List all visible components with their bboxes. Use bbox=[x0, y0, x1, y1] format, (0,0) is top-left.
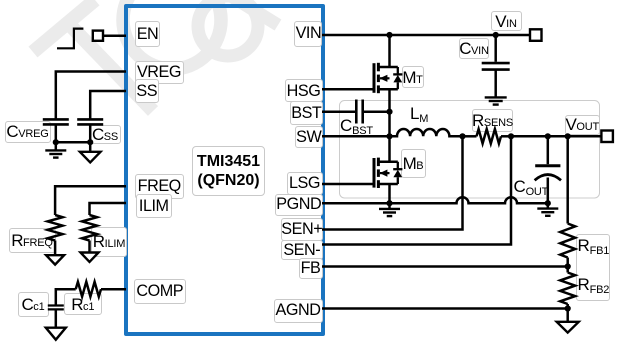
node C_OUT bottom / power ground bbox=[545, 200, 551, 206]
wire FB to feedback divider bbox=[322, 265, 568, 268]
resistor R_SENS bbox=[477, 129, 502, 143]
capacitor C_SS bbox=[77, 119, 103, 124]
wire R_FREQ to ground bbox=[54, 241, 57, 256]
pin label ILIM bbox=[136, 194, 172, 218]
wire VIN pin to V_IN terminal bbox=[322, 34, 530, 37]
pin label VREG bbox=[135, 61, 184, 84]
label C_OUT bbox=[514, 178, 549, 195]
resistor R_FB2 bbox=[566, 267, 569, 273]
op-amp / IC U1 TMI3451 outline bbox=[124, 4, 325, 336]
ground (earth) under C_VIN bbox=[485, 97, 507, 104]
capacitor C_VREG bbox=[43, 119, 69, 124]
ground (triangle) under C_c1 bbox=[46, 328, 66, 340]
resistor R_FREQ bbox=[48, 215, 63, 241]
wire R_SENS node to V_OUT bbox=[511, 135, 601, 138]
label C_BST bbox=[340, 117, 373, 134]
V_IN terminal bbox=[530, 29, 542, 41]
label R_FB2 bbox=[578, 276, 610, 293]
wire FREQ pin to R_FREQ bbox=[55, 186, 126, 215]
V_OUT terminal bbox=[601, 131, 613, 143]
pin label LSG bbox=[287, 172, 323, 196]
pin label SW bbox=[295, 126, 323, 149]
pin label VIN bbox=[294, 21, 322, 47]
wire M_B source to ground bbox=[388, 184, 391, 203]
wire SS pin to C_SS bbox=[90, 91, 126, 119]
resistor R_FB1 bbox=[566, 136, 569, 223]
wire SEN+ to left of R_SENS bbox=[322, 136, 463, 229]
EN input terminal bbox=[93, 31, 103, 41]
transistor M_B bbox=[374, 158, 402, 188]
ground (triangle) under R_FB2 bbox=[566, 309, 569, 322]
node L_M / SEN+ tap bbox=[459, 133, 465, 139]
wire R_ILIM to ground bbox=[88, 241, 91, 253]
label R_FREQ bbox=[9, 228, 56, 254]
node R_SENS / SEN- tap bbox=[508, 133, 514, 139]
label M_B bbox=[401, 149, 426, 178]
ground (earth) under C_OUT bbox=[547, 203, 550, 208]
label M_T bbox=[402, 66, 424, 89]
node SW bbox=[386, 133, 392, 139]
label L_M bbox=[410, 105, 428, 122]
pin label SEN- bbox=[281, 240, 323, 261]
wire HSG pin to M_T gate bbox=[322, 88, 373, 91]
node at C_SS bottom bbox=[87, 139, 93, 145]
wire VREG pin to C_VREG bbox=[56, 72, 126, 119]
wire joining C_VREG and C_SS bottoms bbox=[56, 141, 90, 144]
wire EN terminal to EN pin bbox=[103, 34, 126, 37]
wire ILIM pin to R_ILIM bbox=[90, 203, 127, 215]
label R_ILIM bbox=[91, 227, 127, 257]
pin label BST bbox=[290, 101, 323, 124]
pin label AGND bbox=[274, 299, 323, 323]
label C_SS bbox=[90, 125, 121, 144]
ground (earth) under M_B bbox=[388, 203, 391, 209]
label V_IN bbox=[491, 11, 522, 31]
node C_OUT top bbox=[545, 133, 551, 139]
wire BST pin to C_BST bbox=[322, 110, 356, 113]
label R_FB1 bbox=[578, 237, 610, 254]
node V_OUT / R_FB1 top bbox=[565, 133, 571, 139]
pin label FREQ bbox=[135, 174, 184, 199]
wire R_c1 to C_c1 bbox=[56, 289, 76, 305]
ground (triangle) under C_SS bbox=[89, 142, 92, 152]
label R_c1 bbox=[64, 293, 102, 315]
wire to R_SENS bbox=[463, 135, 477, 138]
capacitor C_c1 bbox=[48, 306, 64, 310]
wire M_B drain to SW node bbox=[388, 136, 391, 162]
wire M_T source to SW rail bbox=[388, 89, 391, 136]
wire PGND pin to C_OUT ground with hops bbox=[322, 197, 548, 203]
ground (triangle) under R_ILIM bbox=[81, 253, 99, 262]
ground (triangle) under R_FREQ bbox=[46, 255, 64, 264]
pin label COMP bbox=[134, 279, 186, 304]
pin label HSG bbox=[285, 79, 323, 102]
node VIN / M_T drain bbox=[386, 32, 392, 38]
node FB tap bbox=[565, 263, 571, 269]
wire R_SENS to node bbox=[501, 135, 511, 138]
label V_OUT bbox=[565, 115, 600, 136]
label R_SENS bbox=[472, 109, 513, 132]
EN step-pulse symbol bbox=[57, 29, 83, 49]
node BST on SW-source rail bbox=[386, 109, 392, 115]
capacitor C_BST bbox=[356, 100, 362, 124]
transistor M_T bbox=[374, 63, 402, 93]
feedback resistor label box R_FB1 / R_FB2 bbox=[576, 234, 610, 302]
pin label EN bbox=[135, 21, 160, 47]
ground (earth) under C_VREG bbox=[55, 142, 58, 150]
wire SW pin to SW node bbox=[322, 135, 390, 138]
resistor R_c1 bbox=[76, 282, 101, 297]
label C_VIN bbox=[459, 38, 489, 59]
resistor R_ILIM bbox=[82, 215, 97, 241]
pin label SS bbox=[135, 79, 160, 103]
wire AGND pin to divider ground bbox=[322, 307, 568, 310]
pin label FB bbox=[299, 258, 323, 279]
wire M_T drain to VIN bbox=[388, 35, 391, 67]
wire COMP pin to R_c1 bbox=[101, 288, 126, 291]
node AGND / R_FB2 bottom bbox=[565, 305, 571, 311]
node at C_VREG bottom bbox=[53, 139, 59, 145]
label C_VREG bbox=[5, 121, 51, 143]
wire LSG pin to M_B gate bbox=[322, 183, 373, 186]
label C_c1 bbox=[18, 292, 49, 317]
node VIN / C_VIN bbox=[493, 32, 499, 38]
inductor L_M bbox=[390, 129, 463, 136]
capacitor C_VIN bbox=[494, 35, 497, 62]
pin label SEN+ bbox=[281, 218, 323, 241]
IC part-number label TMI3451 (QFN20) bbox=[192, 146, 264, 197]
wire SEN- to right of R_SENS bbox=[322, 136, 511, 244]
node PGND / M_B source bbox=[386, 200, 392, 206]
pin label PGND bbox=[275, 194, 323, 216]
capacitor C_OUT bbox=[547, 136, 550, 164]
